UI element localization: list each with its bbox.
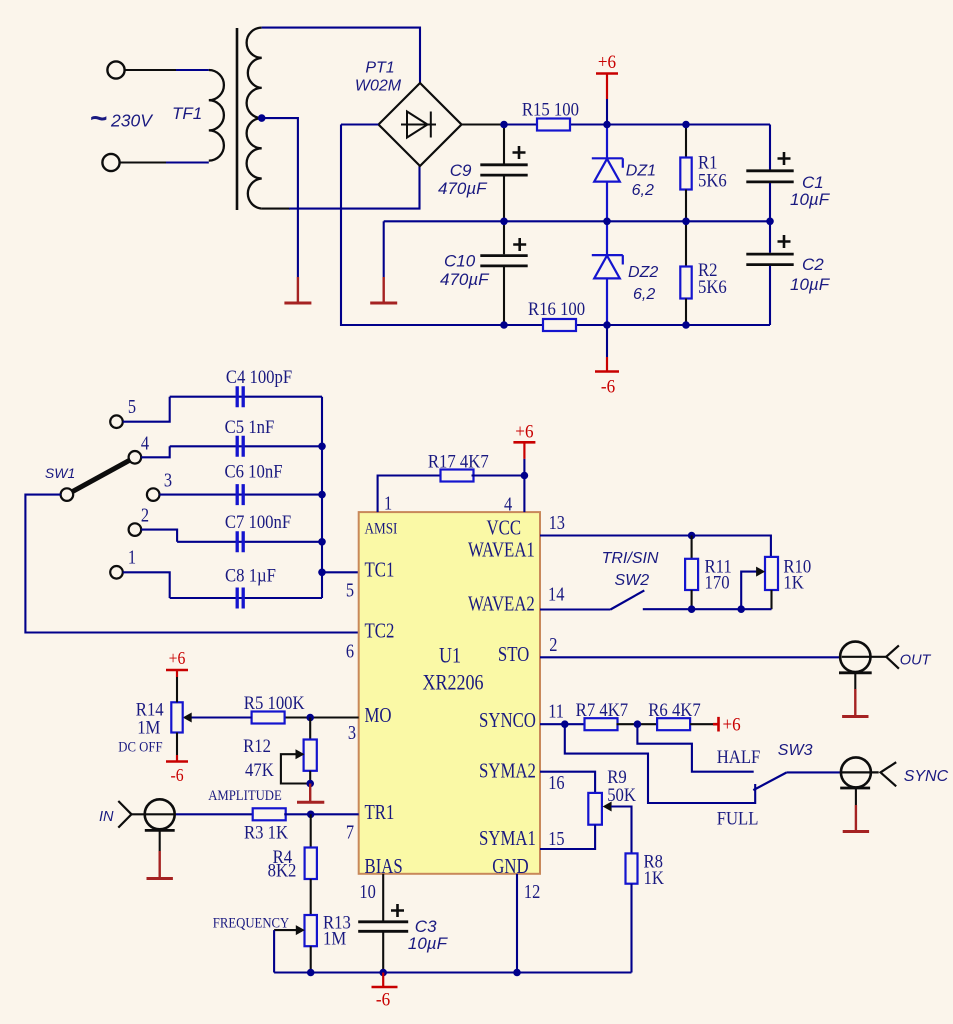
- svg-text:MO: MO: [365, 704, 392, 727]
- power +6 after R6: [690, 723, 713, 725]
- resistor R2: [685, 221, 687, 266]
- svg-text:C3: C3: [415, 917, 437, 936]
- capacitor C9: [503, 125, 505, 164]
- wire bottom -6 rail: [274, 971, 631, 973]
- wire contact5 to C4: [123, 397, 170, 422]
- switch SW1 contact 4: [129, 451, 142, 464]
- svg-text:1: 1: [384, 492, 392, 514]
- svg-text:AMPLITUDE: AMPLITUDE: [208, 788, 282, 804]
- capacitor C6: [160, 494, 323, 496]
- svg-text:5: 5: [128, 396, 136, 418]
- svg-text:4: 4: [141, 432, 149, 454]
- svg-text:R12: R12: [243, 735, 271, 756]
- svg-text:R3 1K: R3 1K: [244, 822, 288, 843]
- svg-text:15: 15: [548, 828, 564, 850]
- svg-text:HALF: HALF: [717, 746, 761, 767]
- svg-text:OUT: OUT: [900, 653, 932, 669]
- svg-text:W02M: W02M: [355, 78, 402, 95]
- svg-text:5: 5: [346, 579, 354, 601]
- wire GND pin12: [516, 874, 518, 973]
- svg-text:10µF: 10µF: [790, 190, 831, 209]
- svg-text:16: 16: [548, 772, 564, 794]
- wire R12 bottom: [309, 771, 311, 784]
- R9 wiper: [603, 802, 612, 812]
- wire pin13 WAVEA1: [540, 536, 771, 557]
- svg-text:+6: +6: [515, 421, 533, 442]
- svg-text:C7 100nF: C7 100nF: [225, 511, 291, 532]
- capacitor C3: [358, 922, 408, 932]
- potentiometer R10: [765, 557, 778, 590]
- switch SW1 contact 1: [110, 566, 123, 579]
- potentiometer R9: [588, 793, 602, 825]
- R10 wiper: [741, 572, 757, 610]
- node R7 R6 junction: [634, 720, 642, 728]
- svg-text:FULL: FULL: [717, 807, 759, 828]
- wire +V top rail: [504, 123, 537, 125]
- node SYNCO junction: [561, 720, 569, 728]
- capacitor C4: [170, 396, 322, 398]
- svg-text:AMSI: AMSI: [365, 521, 398, 538]
- node MO junction: [306, 714, 314, 722]
- svg-text:FREQUENCY: FREQUENCY: [213, 916, 289, 932]
- power +6 R14: [176, 677, 178, 702]
- wire J2 to primary: [120, 161, 167, 163]
- potentiometer R14: [171, 702, 182, 732]
- wire R4 to R13: [310, 879, 312, 915]
- svg-text:TRI/SIN: TRI/SIN: [602, 550, 659, 567]
- svg-text:5K6: 5K6: [698, 276, 727, 297]
- connector IN arrow: [118, 801, 131, 828]
- svg-text:DZ1: DZ1: [626, 163, 656, 180]
- wire contact4 to C5: [141, 446, 170, 457]
- wire center tap to ground: [262, 118, 298, 277]
- wire R7 to R6: [617, 723, 658, 725]
- svg-text:TR1: TR1: [365, 801, 395, 824]
- capacitor C1: [769, 125, 771, 170]
- svg-text:1: 1: [128, 546, 136, 568]
- svg-text:C2: C2: [802, 255, 824, 274]
- svg-text:R7 4K7: R7 4K7: [576, 699, 628, 720]
- svg-text:1M: 1M: [137, 717, 160, 738]
- svg-text:R16 100: R16 100: [528, 298, 585, 319]
- svg-text:170: 170: [705, 572, 730, 593]
- switch SW1 contact 5: [110, 415, 123, 428]
- resistor R7: [576, 699, 628, 730]
- wire SW3 to SYNC: [787, 771, 841, 773]
- node R12 bottom: [306, 780, 314, 788]
- svg-text:R17 4K7: R17 4K7: [428, 450, 489, 471]
- svg-text:TC2: TC2: [365, 620, 395, 643]
- svg-text:IN: IN: [99, 809, 114, 825]
- resistor R5: [244, 692, 305, 723]
- svg-text:3: 3: [348, 722, 356, 744]
- resistor R3: [244, 808, 288, 842]
- wire bridge right corner: [462, 123, 505, 125]
- node pin4 junction: [521, 472, 529, 480]
- svg-text:DC OFF: DC OFF: [118, 740, 162, 756]
- transformer TF1 secondary winding: [247, 28, 262, 209]
- node center tap: [258, 114, 266, 122]
- wire R5 to R14 wiper: [189, 716, 252, 718]
- ground OUT: [854, 673, 856, 689]
- ground SYNC: [855, 788, 857, 805]
- zener DZ2: [606, 221, 608, 255]
- svg-text:PT1: PT1: [365, 60, 394, 77]
- svg-text:7: 7: [346, 821, 354, 843]
- svg-text:DZ2: DZ2: [628, 264, 658, 281]
- capacitor C8: [170, 597, 322, 599]
- switch SW1 contact 3: [147, 488, 160, 501]
- terminal J2 (mains bottom): [102, 154, 119, 171]
- wire BIAS pin10: [382, 874, 384, 921]
- svg-text:C4 100pF: C4 100pF: [226, 366, 292, 387]
- svg-text:-6: -6: [170, 765, 183, 785]
- svg-text:1K: 1K: [783, 572, 803, 593]
- wire TR1 to R4: [310, 814, 312, 847]
- R12 wiper: [296, 749, 305, 759]
- svg-text:470µF: 470µF: [438, 179, 488, 198]
- transformer TF1 primary winding: [209, 70, 224, 161]
- svg-text:C8 1µF: C8 1µF: [225, 564, 276, 585]
- svg-text:SW2: SW2: [615, 572, 650, 589]
- switch SW1 common pole: [61, 488, 74, 501]
- resistor R1: [685, 125, 687, 158]
- svg-text:-6: -6: [376, 989, 390, 1010]
- potentiometer R12: [304, 740, 317, 771]
- connector OUT: [842, 656, 887, 658]
- svg-text:SYMA1: SYMA1: [479, 828, 536, 851]
- svg-text:13: 13: [549, 512, 565, 534]
- switch SW2 lever: [611, 590, 645, 609]
- power -6 bottom: [606, 325, 608, 357]
- power +6 top: [596, 72, 618, 75]
- wire R8 to bottom rail: [630, 884, 632, 973]
- wire contact1 to C8: [123, 572, 170, 598]
- ground IN: [159, 830, 161, 851]
- svg-text:STO: STO: [498, 644, 529, 667]
- svg-text:6,2: 6,2: [633, 286, 655, 303]
- resistor R6: [648, 699, 700, 730]
- svg-text:C9: C9: [450, 161, 472, 180]
- svg-text:C5 1nF: C5 1nF: [225, 416, 275, 437]
- svg-text:10: 10: [359, 880, 375, 902]
- wire R9 to pin15 SYMA1: [540, 825, 595, 849]
- connector IN: [132, 813, 177, 815]
- transformer TF1 core: [236, 28, 239, 210]
- svg-text:SYNC: SYNC: [904, 768, 949, 785]
- svg-text:VCC: VCC: [487, 517, 522, 540]
- switch SW1 contact 2: [129, 523, 142, 536]
- svg-text:1K: 1K: [644, 867, 664, 888]
- svg-text:12: 12: [524, 880, 540, 902]
- wire pin11 SYNCO: [540, 723, 585, 725]
- wire bridge left corner: [341, 123, 379, 125]
- ground center tap: [297, 276, 299, 278]
- wire pin16 SYMA2: [540, 772, 595, 793]
- terminal J1 (mains top): [107, 61, 124, 78]
- svg-text:U1: U1: [439, 644, 461, 668]
- wire J1 to primary: [125, 69, 177, 71]
- power -6 bottom rail: [382, 973, 384, 987]
- wire HALF contact: [637, 724, 753, 772]
- connector SYNC: [842, 771, 879, 773]
- capacitor C5: [170, 445, 322, 447]
- power +6 pin4: [513, 441, 535, 444]
- svg-text:1M: 1M: [323, 928, 346, 949]
- wire R17 to pin4: [472, 474, 525, 476]
- resistor R8: [626, 853, 638, 883]
- ground R12: [309, 784, 311, 802]
- capacitor C7: [177, 541, 322, 543]
- capacitor C2: [769, 221, 771, 253]
- wire R3 to TR1: [284, 813, 359, 815]
- svg-text:4: 4: [504, 493, 512, 515]
- svg-text:SW3: SW3: [778, 742, 813, 759]
- svg-text:TC1: TC1: [365, 559, 395, 582]
- svg-text:3: 3: [164, 469, 172, 491]
- svg-text:R5 100K: R5 100K: [244, 692, 305, 713]
- junction dots power rails: [500, 121, 508, 129]
- resistor R16: [528, 298, 585, 331]
- wire secondary bottom to bridge: [262, 208, 290, 210]
- svg-text:C6 10nF: C6 10nF: [224, 461, 282, 482]
- zener DZ1: [606, 125, 608, 159]
- svg-text:47K: 47K: [245, 759, 274, 780]
- svg-text:SW1: SW1: [45, 465, 75, 481]
- junction dots R11 R10 bottom: [688, 605, 696, 613]
- op-amp U1 XR2206 body: [359, 512, 540, 874]
- svg-text:11: 11: [548, 700, 564, 722]
- wire FULL contact: [565, 724, 755, 803]
- svg-text:+6: +6: [169, 648, 186, 668]
- svg-text:230V: 230V: [110, 111, 154, 131]
- bridge rectifier PT1: [379, 83, 462, 166]
- wire R13 bottom: [310, 946, 312, 972]
- node TR1 junction: [307, 811, 315, 819]
- wire MO pin3: [284, 716, 359, 718]
- svg-text:10µF: 10µF: [790, 275, 831, 294]
- svg-text:SYNCO: SYNCO: [479, 709, 536, 732]
- wire pin1 to R17: [378, 476, 441, 513]
- node R11 top: [688, 532, 696, 540]
- svg-text:TF1: TF1: [172, 104, 202, 123]
- svg-text:+6: +6: [723, 714, 741, 735]
- potentiometer R13: [305, 915, 317, 946]
- capacitor C10: [503, 221, 505, 254]
- R13 wiper: [296, 925, 305, 935]
- svg-text:C10: C10: [444, 252, 476, 271]
- wire pin14 WAVEA2: [540, 608, 611, 610]
- svg-text:XR2206: XR2206: [422, 671, 483, 695]
- resistor R11: [691, 536, 693, 559]
- svg-text:6: 6: [346, 640, 354, 662]
- svg-text:WAVEA1: WAVEA1: [468, 539, 535, 562]
- svg-text:WAVEA2: WAVEA2: [468, 593, 535, 616]
- wire SW2 to R10 bottom: [643, 608, 772, 610]
- svg-text:6,2: 6,2: [632, 182, 654, 199]
- svg-text:470µF: 470µF: [440, 270, 490, 289]
- svg-text:R6 4K7: R6 4K7: [648, 699, 700, 720]
- resistor R15: [522, 99, 579, 131]
- svg-text:SYMA2: SYMA2: [479, 760, 536, 783]
- svg-text:14: 14: [548, 583, 564, 605]
- wire STO to OUT: [540, 656, 841, 658]
- switch SW3 lever: [753, 772, 786, 790]
- switch SW1 lever: [72, 460, 130, 492]
- wire contact2 to C7: [141, 530, 177, 542]
- svg-text:8K2: 8K2: [268, 859, 297, 880]
- ground supply 0V: [383, 221, 385, 277]
- svg-text:2: 2: [549, 634, 557, 656]
- svg-text:10µF: 10µF: [408, 934, 449, 953]
- junction dots bottom rail: [307, 969, 315, 977]
- wire -V bottom rail: [341, 125, 543, 326]
- wire SW1 common to TC2: [25, 495, 359, 633]
- svg-text:-6: -6: [601, 376, 615, 397]
- resistor R4: [305, 848, 317, 880]
- power -6 R14: [176, 733, 178, 756]
- junction dots capacitor bus: [318, 443, 326, 451]
- wire secondary top to bridge: [262, 28, 420, 83]
- wire IN to R3: [176, 813, 253, 815]
- wire capacitor bus: [321, 397, 323, 598]
- svg-text:2: 2: [141, 504, 149, 526]
- wire MO to R12: [309, 718, 311, 740]
- svg-text:R15 100: R15 100: [522, 99, 579, 120]
- wire bus to TC1: [322, 571, 360, 573]
- svg-text:5K6: 5K6: [698, 169, 727, 190]
- svg-text:~: ~: [90, 102, 108, 135]
- resistor R17: [428, 450, 489, 481]
- svg-text:+6: +6: [598, 51, 616, 72]
- wire 0V middle rail: [384, 220, 770, 222]
- svg-text:GND: GND: [492, 855, 528, 878]
